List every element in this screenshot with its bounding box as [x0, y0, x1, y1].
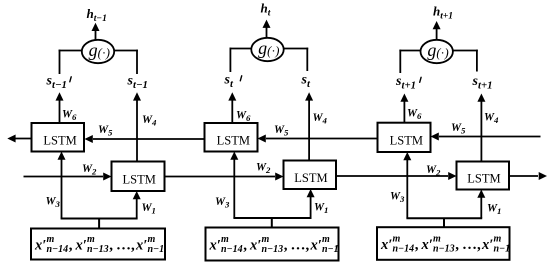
wire forward-chain t to t+1 (label W2)	[336, 175, 448, 177]
svg-text:…,: …,	[116, 238, 135, 254]
wire g input right elbow unit t	[284, 48, 309, 50]
svg-text:n−1: n−1	[322, 244, 339, 255]
svg-text:x′: x′	[209, 238, 221, 254]
svg-text:,: ,	[415, 237, 419, 253]
input box unit t: x-prime m n-14..n-1	[206, 228, 339, 261]
svg-text:n−13: n−13	[87, 244, 109, 255]
wire backward-chain output arrow (left edge)	[15, 138, 32, 140]
wire W1 unit t: input to forward LSTM	[310, 196, 312, 219]
wire W1 unit t-1: input to forward LSTM	[136, 198, 138, 219]
input box unit t-1: x-prime m n-14..n-1	[31, 229, 165, 260]
wire g input left elbow unit t	[230, 48, 252, 50]
wire h_t-1 output arrow from g	[95, 29, 97, 40]
wire W6 unit t: backward LSTM to s_t-prime	[231, 99, 233, 123]
wire W4 unit t+1: forward LSTM to s_t+1	[480, 100, 482, 162]
svg-text:x′: x′	[249, 238, 261, 254]
svg-text:n−1: n−1	[148, 244, 165, 255]
wire W6 unit t+1: backward LSTM to s_t+1-prime	[403, 100, 405, 123]
svg-text:,: ,	[109, 238, 113, 254]
wire g input left elbow unit t-1	[59, 50, 82, 52]
svg-text:x′: x′	[135, 238, 147, 254]
svg-text:n−14: n−14	[221, 244, 243, 255]
svg-text:n−13: n−13	[433, 244, 455, 255]
svg-text:LSTM: LSTM	[217, 133, 250, 147]
LSTM forward box unit t-1	[112, 162, 165, 192]
wire g input right elbow unit t-1	[114, 50, 138, 52]
svg-text:LSTM: LSTM	[123, 172, 156, 186]
svg-text:,: ,	[284, 238, 288, 254]
LSTM backward box unit t	[205, 123, 258, 152]
svg-text:n−14: n−14	[393, 244, 415, 255]
svg-text:LSTM: LSTM	[43, 133, 76, 147]
wire forward-chain output arrow (right edge)	[509, 175, 538, 177]
svg-text:x′: x′	[34, 238, 46, 254]
svg-text:x′: x′	[481, 237, 493, 253]
op g(.) ellipse unit t+1	[421, 40, 453, 63]
wire W4 unit t-1: forward LSTM to s_t-1	[136, 99, 138, 162]
wire input splitter unit t-1	[61, 218, 138, 220]
wire W3 unit t+1: input to backward LSTM	[406, 159, 408, 219]
input box unit t+1: x-prime m n-14..n-1	[377, 227, 510, 260]
wire W3 unit t: input to backward LSTM	[233, 158, 235, 218]
wire W1 unit t+1: input to forward LSTM	[480, 196, 482, 218]
wire forward-chain input (left edge, label W2)	[24, 176, 104, 178]
op g(.) ellipse unit t	[251, 38, 283, 61]
svg-text:n−14: n−14	[47, 244, 69, 255]
svg-text:,: ,	[455, 237, 459, 253]
svg-text:n−1: n−1	[494, 244, 511, 255]
LSTM backward box unit t+1	[378, 123, 431, 152]
svg-text:x′: x′	[380, 237, 392, 253]
wire W3 unit t-1: input to backward LSTM	[61, 158, 63, 219]
LSTM backward box unit t-1	[32, 123, 85, 152]
svg-text:,: ,	[243, 238, 247, 254]
svg-text:x′: x′	[75, 238, 87, 254]
wire W6 unit t-1: backward LSTM to s_t-1-prime	[59, 99, 61, 123]
svg-text:…,: …,	[462, 237, 481, 253]
wire backward-chain input (right edge, label W5)	[439, 136, 541, 138]
svg-text:LSTM: LSTM	[467, 172, 500, 186]
svg-text:LSTM: LSTM	[390, 133, 423, 147]
svg-text:n−13: n−13	[262, 244, 284, 255]
wire h_t output arrow from g	[266, 26, 268, 38]
wire input splitter unit t	[233, 217, 311, 219]
wire g input left elbow unit t+1	[399, 50, 420, 52]
svg-text:…,: …,	[291, 238, 310, 254]
wire g input right elbow unit t+1	[453, 50, 478, 52]
svg-text:LSTM: LSTM	[294, 171, 327, 185]
svg-text:,: ,	[69, 238, 73, 254]
LSTM forward box unit t+1	[457, 162, 510, 190]
svg-text:x′: x′	[421, 237, 433, 253]
wire backward-chain t+1 to t (label W5)	[266, 138, 378, 140]
LSTM forward box unit t	[284, 161, 337, 190]
wire input splitter unit t+1	[406, 217, 482, 219]
wire W4 unit t: forward LSTM to s_t	[308, 99, 310, 161]
wire backward-chain t to t-1 (label W5)	[93, 138, 205, 140]
op g(.) ellipse unit t-1	[82, 40, 114, 63]
wire forward-chain t-1 to t (label W2)	[165, 176, 276, 178]
wire h_t+1 output arrow from g	[436, 28, 438, 41]
svg-text:x′: x′	[310, 238, 322, 254]
